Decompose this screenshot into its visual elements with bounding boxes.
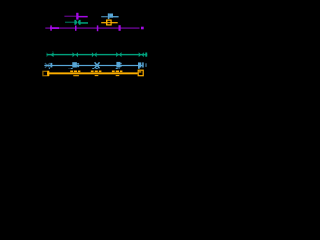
wire bus D (long orange line)	[47, 72, 138, 74]
wire net V1 right (purple, bright)	[78, 16, 87, 18]
diode D4 (teal bowtie on bus B)	[92, 52, 97, 57]
wire net T1 right (teal, bright)	[80, 22, 88, 24]
wire net V2 left (blue)	[101, 16, 108, 17]
component U8 (orange pads on bus D)	[112, 71, 123, 77]
diode D5 (teal bowtie on bus B)	[116, 52, 121, 57]
wire net V1 left (purple, dim)	[64, 16, 76, 17]
component U6 (orange pads on bus D)	[70, 71, 80, 77]
junction X1 (blue X marker on bus C)	[45, 63, 52, 69]
wire net V2 right (blue)	[113, 16, 119, 17]
component U5 (blue square + bar, right end of bus C)	[138, 62, 147, 68]
capacitor C2 plate (blue thick bar on V2)	[108, 13, 110, 19]
capacitor C1 plate (purple thick bar on V1)	[76, 13, 78, 20]
connector CN2 (orange box, right end of bus D)	[138, 70, 143, 76]
diode D1 (teal bowtie marker on T1)	[74, 20, 80, 25]
component U3 (blue square marker on bus C)	[69, 62, 80, 69]
terminal pin bar (teal, right end of bus B)	[145, 53, 147, 57]
component U4 (blue square marker on bus C)	[116, 62, 122, 69]
pin tick P0 on bus A	[50, 25, 52, 30]
junction J1 (thick marker on bus A)	[119, 25, 121, 31]
component U1 body (blue square on V2)	[109, 14, 113, 18]
component U2 (orange figure-8 body on T2)	[106, 20, 111, 26]
wire net T2 left (orange)	[101, 22, 106, 23]
wire net T2 right (orange)	[111, 22, 118, 23]
node A2 (bright end dash of bus A)	[141, 27, 144, 30]
diode D6 (teal bowtie near right end of bus B)	[139, 52, 144, 57]
wire bus C (long blue line)	[44, 65, 142, 66]
wire bus A (long purple line)	[45, 27, 139, 28]
connector CN1 (orange box, left end of bus D)	[43, 71, 49, 76]
background	[0, 0, 159, 106]
junction X2 (blue X marker on bus C)	[92, 62, 99, 68]
pin tick P1 on bus A	[75, 26, 77, 31]
wire net T1 left (teal, dim)	[65, 22, 75, 23]
diode D2 (teal bowtie, left end of bus B)	[47, 52, 54, 58]
component U7 (orange pads on bus D)	[91, 71, 102, 77]
node A1 (bright segment of bus A)	[50, 27, 59, 29]
diode D3 (teal bowtie on bus B)	[73, 52, 79, 57]
wire bus B (long teal line)	[47, 54, 148, 55]
pin tick P2 on bus A	[97, 25, 99, 31]
